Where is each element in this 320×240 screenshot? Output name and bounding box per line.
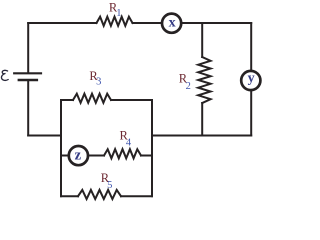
wire R2 branch top bbox=[201, 23, 203, 57]
wire z branch left bbox=[61, 155, 68, 157]
wire R4 branch right bbox=[141, 155, 152, 157]
svg-text:3: 3 bbox=[96, 77, 101, 88]
svg-text:2: 2 bbox=[186, 81, 191, 92]
wire R3 branch left bbox=[61, 99, 73, 101]
svg-text:4: 4 bbox=[126, 137, 132, 148]
wire battery to parallel network bbox=[28, 135, 61, 137]
svg-text:1: 1 bbox=[116, 8, 121, 19]
resistor R5 bbox=[78, 190, 121, 199]
wire left edge below battery bbox=[27, 81, 29, 136]
voltmeter y circle bbox=[241, 71, 260, 90]
ammeter z circle bbox=[69, 146, 88, 165]
wire right edge above meter y bbox=[250, 23, 252, 70]
svg-text:y: y bbox=[248, 71, 255, 86]
resistor R2 bbox=[198, 57, 210, 103]
wire R5 branch left bbox=[61, 195, 78, 197]
ammeter x circle bbox=[162, 14, 181, 33]
wire R1 to meter x bbox=[133, 22, 162, 24]
wire network left rail bbox=[60, 100, 62, 196]
resistor R1 bbox=[97, 17, 133, 26]
wire R2 branch bottom bbox=[201, 103, 203, 136]
wire R5 branch right bbox=[121, 195, 152, 197]
svg-text:5: 5 bbox=[107, 180, 112, 191]
wire top-left segment bbox=[28, 22, 96, 24]
svg-text:x: x bbox=[169, 16, 176, 31]
wire bottom outer bbox=[152, 135, 251, 137]
battery long plate bbox=[14, 72, 41, 74]
resistor R3 bbox=[73, 94, 111, 103]
battery EMF label script-E bbox=[1, 70, 8, 80]
battery short plate bbox=[19, 79, 37, 81]
wire z to R4 bbox=[89, 155, 104, 157]
wire right edge below meter y bbox=[250, 91, 252, 136]
resistor R4 bbox=[104, 149, 141, 158]
wire meter x to top-right corner bbox=[182, 22, 251, 24]
wire network right rail bbox=[151, 100, 153, 196]
wire left edge above battery bbox=[27, 23, 29, 73]
svg-text:z: z bbox=[75, 148, 82, 164]
wire R3 branch right bbox=[111, 99, 152, 101]
